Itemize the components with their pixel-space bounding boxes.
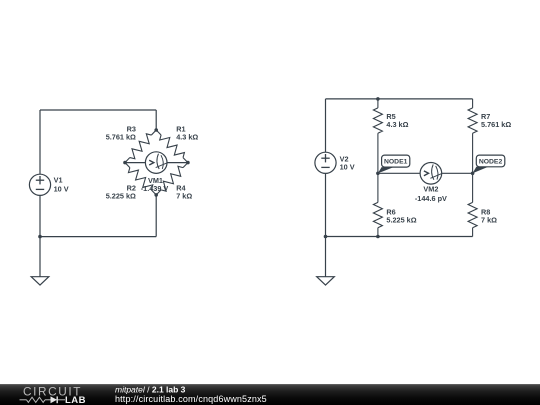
svg-text:5.761 kΩ: 5.761 kΩ — [481, 120, 511, 129]
svg-text:http://circuitlab.com/cnqd6wwn: http://circuitlab.com/cnqd6wwn5znx5 — [115, 394, 267, 404]
svg-text:5.225 kΩ: 5.225 kΩ — [386, 215, 416, 224]
svg-text:5.225 kΩ: 5.225 kΩ — [106, 191, 136, 200]
svg-text:VM2: VM2 — [423, 184, 438, 193]
svg-text:7 kΩ: 7 kΩ — [176, 191, 192, 200]
svg-text:10 V: 10 V — [54, 185, 69, 194]
svg-text:-1.439 V: -1.439 V — [141, 184, 169, 193]
svg-text:-144.6 pV: -144.6 pV — [415, 194, 447, 203]
svg-text:NODE2: NODE2 — [479, 158, 503, 165]
svg-text:mitpatel / 2.1 lab 3: mitpatel / 2.1 lab 3 — [115, 384, 186, 394]
svg-text:NODE1: NODE1 — [384, 159, 408, 166]
svg-text:4.3 kΩ: 4.3 kΩ — [176, 132, 198, 141]
svg-text:10 V: 10 V — [340, 163, 355, 172]
svg-text:7 kΩ: 7 kΩ — [481, 215, 497, 224]
svg-text:5.761 kΩ: 5.761 kΩ — [106, 132, 136, 141]
svg-text:LAB: LAB — [65, 395, 86, 405]
svg-text:V1: V1 — [54, 176, 63, 185]
svg-text:4.3 kΩ: 4.3 kΩ — [386, 120, 408, 129]
